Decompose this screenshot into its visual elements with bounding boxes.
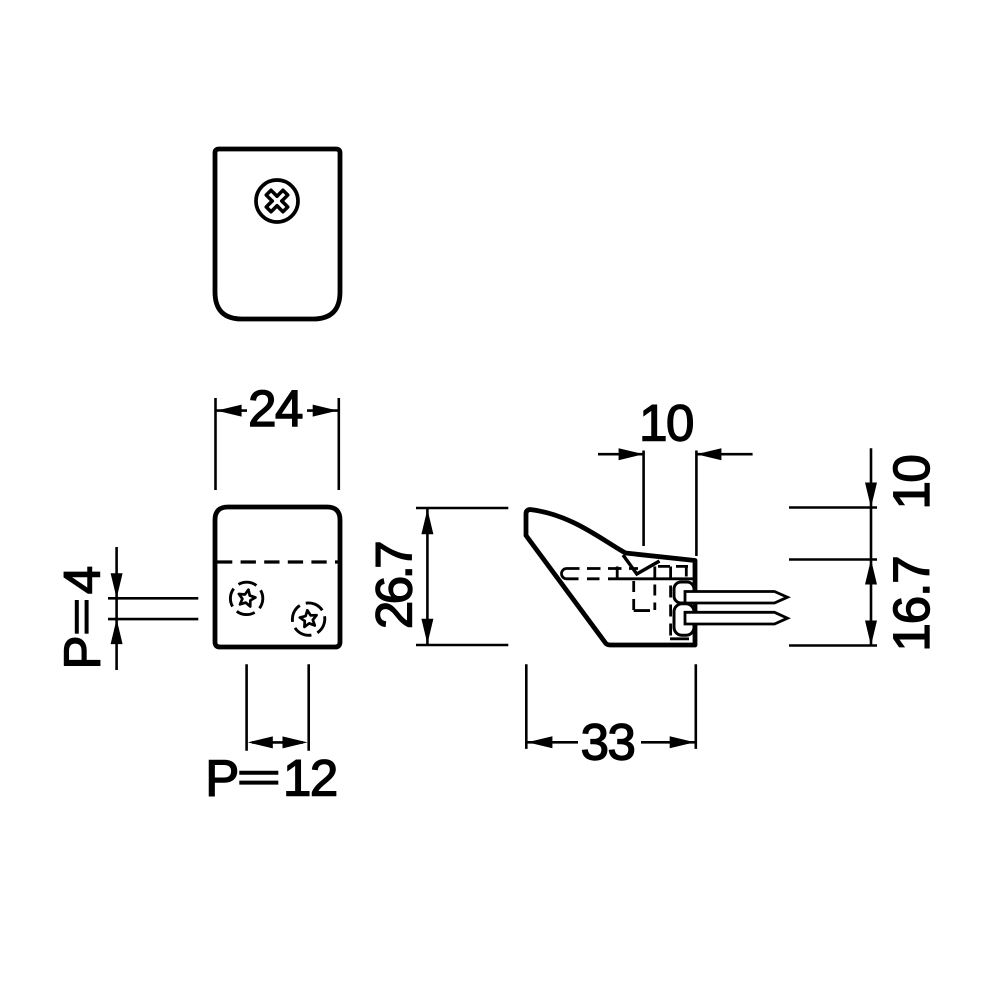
dim P12 equals sign bars bbox=[239, 771, 278, 775]
side view hidden screw hole lower dashed line bbox=[566, 577, 608, 580]
front view screw A star recess bbox=[237, 588, 257, 607]
dim 24 line bbox=[217, 409, 338, 412]
svg-text:26.7: 26.7 bbox=[366, 543, 423, 629]
side view pocket left dashed wall bbox=[669, 567, 672, 639]
dim P12 arrow left (pointing left) bbox=[248, 736, 273, 748]
dim 33 text mask bbox=[578, 723, 641, 761]
dim P4 extension line top bbox=[108, 597, 198, 600]
dim 24 extension line left bbox=[214, 398, 217, 490]
svg-text:P: P bbox=[53, 635, 110, 669]
right extension line bottom bbox=[789, 644, 877, 647]
dim 24 arrow left bbox=[217, 405, 242, 417]
dim P12 extension line left bbox=[245, 664, 248, 750]
front view hidden seam dashed line bbox=[217, 560, 338, 563]
dim P4 arrow bottom (outside pointing up) bbox=[111, 619, 123, 644]
dim 10 top extension line right bbox=[695, 451, 698, 557]
dim 10 top line right shaft bbox=[697, 453, 753, 456]
pin head 1 (pan head) bbox=[674, 582, 694, 603]
right extension line top bbox=[789, 506, 877, 509]
side view pocket top dashed line bbox=[658, 565, 694, 568]
dim P4 arrow top (outside pointing down) bbox=[111, 573, 123, 598]
dim P4 extension line bottom bbox=[108, 618, 198, 621]
dim 33 line bbox=[527, 741, 694, 744]
dim 33 extension line left bbox=[525, 664, 528, 749]
top view body outline bbox=[215, 149, 340, 319]
dim P12 line bbox=[252, 741, 303, 744]
pin 2 (pointed) bbox=[685, 612, 788, 624]
svg-text:10: 10 bbox=[883, 456, 940, 510]
svg-text:16.7: 16.7 bbox=[883, 556, 940, 651]
side view vertical dash at hole end bbox=[616, 567, 619, 579]
dim 24 text mask bbox=[247, 392, 307, 429]
dim 33 arrow right bbox=[670, 736, 695, 748]
right extension line middle bbox=[789, 558, 877, 561]
side view inner pocket bottom small solid line bbox=[634, 609, 650, 612]
dim 16.7 arrow down (tip at bottom ext line) bbox=[865, 621, 877, 646]
dim P12 extension line right bbox=[307, 664, 310, 750]
top view screw head circle bbox=[256, 180, 298, 222]
dim 33 arrow left bbox=[527, 736, 552, 748]
dim 10 top line left shaft bbox=[598, 453, 643, 456]
side view hidden screw hole upper dashed line with round cap bbox=[562, 569, 566, 579]
side view inner dashed vertical 1 bbox=[632, 581, 635, 611]
dim right 10 arrow (pointing down, tip at top ext line) bbox=[865, 483, 877, 508]
dim 24 arrow right bbox=[313, 405, 338, 417]
dim 26.7 arrow top bbox=[421, 509, 433, 534]
svg-text:12: 12 bbox=[283, 750, 337, 807]
svg-text:P: P bbox=[205, 750, 238, 807]
pin 1 (pointed) bbox=[685, 592, 788, 604]
side view inner dashed vertical 2 bbox=[653, 567, 656, 611]
dim 16.7 arrow up (tip at middle ext line) bbox=[865, 560, 877, 585]
side view pocket bottom solid line bbox=[670, 637, 689, 640]
dim P4 line bbox=[115, 547, 118, 670]
dim P12 arrow right (pointing right) bbox=[283, 736, 308, 748]
svg-text:4: 4 bbox=[53, 566, 110, 594]
svg-text:33: 33 bbox=[581, 714, 635, 771]
front view screw B dashed circle bbox=[290, 600, 328, 638]
dim right vertical line bbox=[870, 448, 873, 645]
pin head 2 (pan head) bbox=[674, 604, 694, 636]
dim 26.7 arrow bottom bbox=[421, 619, 433, 644]
side view pocket right dashed wall bbox=[685, 567, 688, 583]
dim 26.7 extension line top bbox=[416, 507, 508, 510]
front view screw A dashed circle bbox=[224, 576, 268, 620]
dim P4 equals sign bars bbox=[75, 600, 79, 634]
side view hole bottom solid line bbox=[608, 577, 693, 580]
side view body outline bbox=[526, 510, 695, 646]
svg-text:10: 10 bbox=[639, 395, 693, 452]
dim 10 top arrow right (outside pointing left) bbox=[696, 448, 721, 460]
svg-text:24: 24 bbox=[248, 380, 302, 437]
dim 26.7 extension line bottom bbox=[416, 644, 508, 647]
top view phillips cross recess bbox=[266, 190, 288, 212]
dim 10 top arrow left (outside pointing right) bbox=[619, 448, 644, 460]
dim 26.7 line bbox=[426, 509, 429, 644]
side view countersink V bbox=[623, 555, 660, 574]
dim 33 extension line right bbox=[694, 664, 697, 749]
dim 10 top extension line left bbox=[642, 451, 645, 547]
front view body outline bbox=[215, 507, 340, 647]
dim 24 extension line right bbox=[337, 398, 340, 490]
front view screw B star recess bbox=[299, 609, 318, 627]
